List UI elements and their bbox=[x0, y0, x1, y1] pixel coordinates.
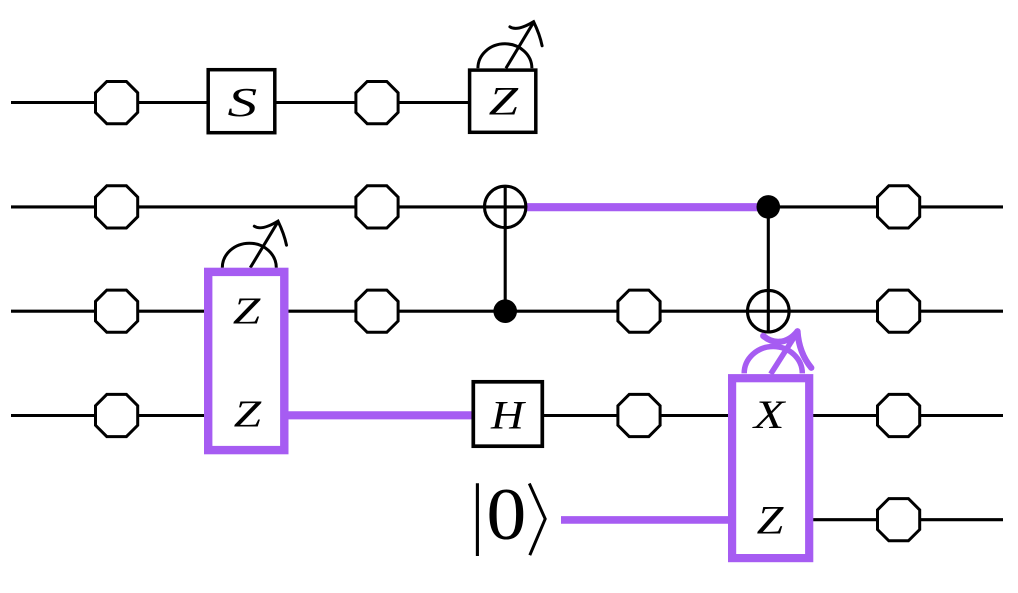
svg-text:S: S bbox=[227, 80, 257, 126]
gate box H q4 bbox=[473, 382, 542, 446]
purple wire q4 segment bbox=[288, 411, 472, 419]
CNOT control dot q2 col6 bbox=[757, 195, 781, 219]
ket |0> label bbox=[477, 473, 545, 556]
octagon q2 col1 bbox=[96, 186, 138, 228]
gate box Z measured q1 bbox=[470, 70, 536, 132]
measurement meter above ZZ box bbox=[222, 221, 286, 268]
CNOT control dot q3 col4 bbox=[493, 299, 517, 323]
svg-text:Z: Z bbox=[489, 79, 519, 123]
octagon q3 col3 bbox=[356, 290, 398, 332]
CNOT target q2 col4 bbox=[485, 186, 526, 227]
ket bar bbox=[476, 483, 479, 556]
purple measurement meter on XZ box bbox=[744, 331, 811, 374]
svg-text:0: 0 bbox=[486, 473, 526, 556]
wire q5 bbox=[561, 518, 1003, 521]
octagon q1 col3 bbox=[356, 82, 398, 124]
octagon q4 col7 bbox=[878, 394, 920, 436]
purple wire q5 segment bbox=[561, 516, 731, 524]
purple XZ box q4-q5 bbox=[732, 378, 809, 558]
octagon q5 col7 bbox=[878, 499, 920, 541]
octagon q4 col1 bbox=[96, 394, 138, 436]
vertical CNOT link col6 bbox=[767, 207, 770, 332]
CNOT target q3 col6 bbox=[748, 290, 790, 332]
svg-text:Z: Z bbox=[234, 393, 262, 435]
octagon q3 col7 bbox=[878, 290, 920, 332]
svg-text:X: X bbox=[752, 393, 787, 437]
octagon q2 col3 bbox=[356, 186, 398, 228]
purple wire q2 segment bbox=[526, 203, 768, 211]
wire q1 bbox=[11, 101, 502, 104]
wire q2 bbox=[11, 205, 1003, 208]
octagon q3 col1 bbox=[96, 290, 138, 332]
octagon q1 col1 bbox=[96, 82, 138, 124]
measurement meter above Z box q1 bbox=[478, 22, 542, 69]
svg-text:Z: Z bbox=[233, 290, 261, 332]
gate box S bbox=[208, 70, 275, 133]
svg-text:H: H bbox=[490, 394, 526, 438]
svg-text:Z: Z bbox=[757, 498, 784, 542]
octagon q4 col5 bbox=[618, 394, 660, 436]
ket angle bbox=[529, 484, 545, 556]
octagon q3 col5 bbox=[618, 290, 660, 332]
octagon q2 col7 bbox=[878, 186, 920, 228]
vertical CNOT link col4 bbox=[504, 186, 507, 311]
wire q4 bbox=[11, 414, 1003, 417]
purple ZZ box q3-q4 bbox=[208, 272, 284, 450]
wire q3 bbox=[11, 310, 1003, 313]
